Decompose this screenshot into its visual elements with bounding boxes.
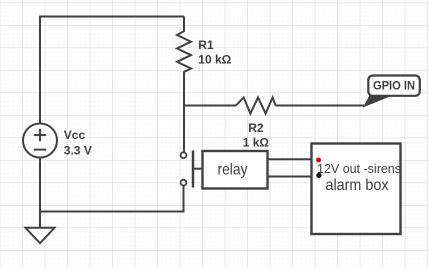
- ground: [26, 212, 55, 244]
- relay contact: upper terminal: [181, 152, 187, 158]
- wire: relay to alarm box bottom: [268, 176, 312, 178]
- wire: relay to alarm box top: [268, 158, 312, 160]
- resistor R2 1 kOhm (horizontal zigzag): [236, 97, 276, 113]
- svg-text:10 kΩ: 10 kΩ: [198, 52, 231, 66]
- terminal dot black: [316, 173, 321, 178]
- alarm box: [312, 144, 401, 235]
- svg-text:3.3 V: 3.3 V: [64, 143, 92, 157]
- relay contact: lower terminal: [181, 180, 187, 186]
- node junction wire to R2: [184, 105, 236, 107]
- relay box U1: [203, 151, 268, 189]
- voltage source V1 (Vcc 3.3 V): [23, 124, 57, 158]
- svg-text:1 kΩ: 1 kΩ: [243, 135, 270, 149]
- svg-text:Vcc: Vcc: [64, 128, 86, 142]
- relay contact blade bar: [192, 151, 195, 188]
- mechanical link bar to relay box: [193, 168, 203, 170]
- callout GPIO IN: [364, 76, 420, 107]
- wire: below source down to bottom rail: [39, 158, 41, 212]
- svg-text:R1: R1: [198, 38, 214, 52]
- svg-text:GPIO IN: GPIO IN: [373, 78, 415, 92]
- label R2 1 kOhm: [243, 121, 270, 149]
- svg-text:12V out -sirens: 12V out -sirens: [317, 162, 401, 176]
- resistor R1 10 kOhm (vertical zigzag): [177, 17, 191, 153]
- terminal dot red (12V out): [316, 158, 321, 163]
- svg-text:R2: R2: [248, 121, 264, 135]
- wire: R2 to GPIO callout: [276, 105, 364, 107]
- label Vcc 3.3 V: [64, 128, 92, 157]
- label R1 10 kOhm: [198, 38, 231, 66]
- svg-text:relay: relay: [218, 162, 248, 179]
- wire: bottom rail to relay lower contact: [40, 186, 184, 212]
- svg-text:alarm box: alarm box: [326, 177, 389, 194]
- wire: top horizontal and left vertical from Vcc source to R1: [40, 17, 184, 124]
